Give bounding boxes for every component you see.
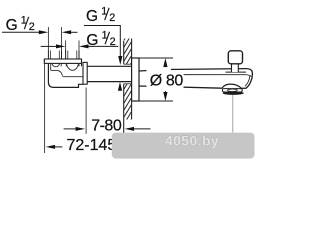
svg-text:2: 2 xyxy=(29,21,35,33)
svg-text:G: G xyxy=(6,17,18,34)
aerator inner face xyxy=(227,89,237,91)
outlet dome xyxy=(222,84,241,88)
spout second top line xyxy=(184,75,252,77)
knob boss line xyxy=(226,71,247,73)
body inner details xyxy=(51,63,83,76)
G1/2 label middle xyxy=(86,29,115,49)
pipe through wall xyxy=(87,66,132,81)
spout body xyxy=(139,69,247,71)
knob xyxy=(228,51,242,64)
flange on wall (escutcheon, side view) xyxy=(132,58,139,101)
wall right edge xyxy=(131,39,133,120)
Ø80 text background xyxy=(147,66,172,72)
stub A (left inlet) xyxy=(48,50,61,59)
svg-text:G: G xyxy=(86,32,98,49)
svg-text:Ø 80: Ø 80 xyxy=(150,73,184,90)
svg-text:G: G xyxy=(86,8,98,25)
wall hatching xyxy=(116,14,140,145)
wall left edge xyxy=(123,41,125,133)
7-80 dimension xyxy=(64,128,76,130)
watermark xyxy=(112,133,255,159)
water line xyxy=(232,95,234,133)
aerator dark underside xyxy=(223,91,244,95)
union nut xyxy=(83,62,87,84)
svg-text:2: 2 xyxy=(109,12,115,24)
svg-text:4050.by: 4050.by xyxy=(165,132,219,148)
G1/2 label top-left xyxy=(6,14,35,34)
dimension row 1 (left G1/2) xyxy=(2,31,78,33)
body outline xyxy=(48,63,83,87)
dimension row 2 (mid G1/2) xyxy=(41,45,57,47)
knob stem xyxy=(231,64,238,72)
Ø80 witness lines xyxy=(139,57,173,59)
72-145 dimension xyxy=(46,145,55,149)
wall hole edges xyxy=(124,63,132,65)
Ø80 dimension line and arrows xyxy=(163,58,167,67)
extension lines xyxy=(45,27,87,153)
stub B (right inlet) xyxy=(66,50,79,59)
up arrow under pipe xyxy=(118,82,122,91)
svg-text:7-80: 7-80 xyxy=(91,118,122,135)
svg-text:2: 2 xyxy=(110,36,116,48)
aerator capsule xyxy=(222,89,242,92)
G1/2 label top-right xyxy=(86,5,115,25)
flange bar (top plate) xyxy=(44,59,81,63)
leader of top-right G1/2 xyxy=(84,26,120,58)
svg-text:72-145: 72-145 xyxy=(67,137,117,154)
body right edge xyxy=(81,63,83,66)
spout right end xyxy=(240,69,252,89)
